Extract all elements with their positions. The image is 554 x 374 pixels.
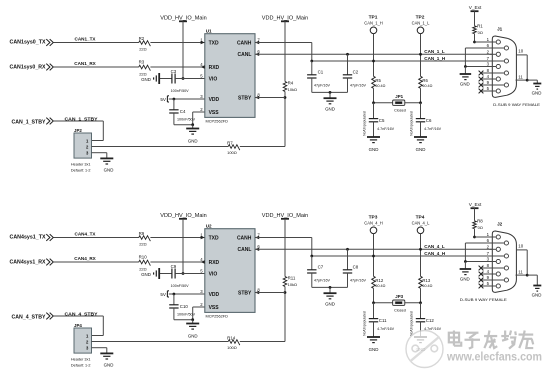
- svg-text:VIO: VIO: [209, 271, 218, 277]
- svg-text:No/Unpopulated: No/Unpopulated: [362, 111, 366, 136]
- svg-text:10kΩ: 10kΩ: [288, 282, 297, 287]
- svg-text:CAN1_RX: CAN1_RX: [74, 61, 96, 66]
- svg-text:RXD: RXD: [209, 65, 220, 71]
- svg-text:22Ω: 22Ω: [139, 46, 146, 51]
- svg-text:CAN_1_H: CAN_1_H: [364, 20, 382, 25]
- svg-text:CAN_1_STBY: CAN_1_STBY: [65, 116, 98, 121]
- svg-text:GND: GND: [104, 168, 114, 173]
- svg-text:CAN4sys1_TX: CAN4sys1_TX: [10, 235, 47, 241]
- svg-text:No/Unpopulated: No/Unpopulated: [362, 311, 366, 336]
- svg-text:STBY: STBY: [238, 95, 252, 101]
- svg-text:No/Unpopulated: No/Unpopulated: [409, 111, 413, 136]
- svg-text:R11: R11: [288, 276, 296, 281]
- svg-text:JP4: JP4: [74, 323, 82, 328]
- svg-text:0Ω: 0Ω: [478, 30, 483, 35]
- svg-text:CAN_4_STBY: CAN_4_STBY: [12, 314, 47, 320]
- svg-text:GND: GND: [369, 347, 379, 352]
- svg-text:V_Ext: V_Ext: [469, 5, 482, 10]
- svg-text:C8: C8: [353, 264, 359, 269]
- svg-text:GND: GND: [325, 106, 335, 111]
- svg-text:4.7nF/16V: 4.7nF/16V: [377, 327, 395, 331]
- svg-text:60.4Ω: 60.4Ω: [422, 284, 432, 288]
- svg-text:VSS: VSS: [209, 305, 220, 311]
- svg-text:GND: GND: [532, 91, 542, 96]
- svg-text:R13: R13: [422, 278, 430, 283]
- svg-text:No/Unpopulated: No/Unpopulated: [409, 311, 413, 336]
- svg-text:R8: R8: [477, 219, 483, 224]
- svg-text:MCP2562FD: MCP2562FD: [206, 118, 229, 123]
- svg-text:GND: GND: [460, 277, 470, 282]
- svg-text:R9: R9: [139, 231, 145, 236]
- svg-text:CAN_4_L: CAN_4_L: [424, 244, 445, 249]
- svg-text:Closed: Closed: [394, 109, 406, 113]
- svg-text:Closed: Closed: [394, 309, 406, 313]
- svg-text:C1: C1: [318, 69, 324, 74]
- svg-text:22Ω: 22Ω: [139, 267, 146, 272]
- svg-text:JP3: JP3: [395, 294, 403, 299]
- svg-text:22Ω: 22Ω: [139, 241, 146, 246]
- svg-text:RXD: RXD: [209, 260, 220, 266]
- svg-text:GND: GND: [416, 147, 426, 152]
- svg-text:CANH: CANH: [237, 235, 252, 241]
- svg-text:R14: R14: [227, 336, 236, 341]
- svg-text:CANH: CANH: [237, 40, 252, 46]
- svg-text:100nF/50V: 100nF/50V: [171, 284, 190, 288]
- svg-text:C5: C5: [379, 118, 385, 123]
- svg-text:R7: R7: [227, 141, 233, 146]
- svg-text:JP1: JP1: [395, 94, 403, 99]
- svg-text:C6: C6: [426, 118, 432, 123]
- svg-text:R3: R3: [139, 59, 145, 64]
- svg-text:VSS: VSS: [209, 110, 220, 116]
- svg-text:47pF/16V: 47pF/16V: [350, 83, 367, 87]
- svg-text:C12: C12: [426, 318, 435, 323]
- svg-text:11: 11: [518, 270, 523, 275]
- svg-text:J1: J1: [497, 27, 503, 32]
- svg-text:GND: GND: [325, 301, 335, 306]
- svg-text:R12: R12: [375, 278, 383, 283]
- svg-text:Default: 1-2: Default: 1-2: [71, 169, 91, 173]
- svg-text:0Ω: 0Ω: [478, 225, 483, 230]
- svg-text:CANL: CANL: [238, 52, 252, 58]
- svg-text:GND: GND: [104, 363, 114, 368]
- svg-text:R2: R2: [139, 36, 145, 41]
- svg-text:47pF/16V: 47pF/16V: [314, 278, 331, 282]
- svg-text:GND: GND: [460, 82, 470, 87]
- svg-text:MCP2562FD: MCP2562FD: [206, 313, 229, 318]
- svg-text:C10: C10: [180, 304, 189, 309]
- svg-text:CAN_4_H: CAN_4_H: [364, 220, 382, 225]
- svg-text:60.4Ω: 60.4Ω: [375, 284, 385, 288]
- svg-text:GND: GND: [188, 333, 198, 338]
- svg-text:GND: GND: [141, 272, 151, 277]
- svg-text:GND: GND: [532, 293, 542, 298]
- svg-text:Default: 1-2: Default: 1-2: [71, 364, 91, 368]
- svg-text:100Ω: 100Ω: [227, 345, 237, 350]
- svg-text:JP2: JP2: [74, 128, 82, 133]
- svg-text:CAN4_RX: CAN4_RX: [74, 256, 96, 261]
- svg-text:C3: C3: [171, 69, 177, 74]
- svg-text:R6: R6: [422, 78, 428, 83]
- svg-text:Header 3x1: Header 3x1: [71, 163, 91, 167]
- svg-text:www.elecfans.com: www.elecfans.com: [446, 350, 542, 364]
- svg-text:CAN1sys0_RX: CAN1sys0_RX: [10, 64, 47, 70]
- svg-text:U1: U1: [206, 29, 212, 34]
- svg-text:100nF/50V: 100nF/50V: [171, 89, 190, 93]
- svg-text:CAN1_TX: CAN1_TX: [75, 36, 97, 41]
- svg-text:R5: R5: [375, 78, 381, 83]
- svg-text:C11: C11: [379, 318, 387, 323]
- svg-text:CAN_4_STBY: CAN_4_STBY: [65, 311, 98, 316]
- svg-text:J2: J2: [497, 222, 503, 227]
- svg-text:R1: R1: [477, 24, 483, 29]
- svg-text:CANL: CANL: [238, 247, 252, 253]
- svg-text:60.4Ω: 60.4Ω: [375, 84, 385, 88]
- svg-text:5V: 5V: [160, 292, 167, 297]
- svg-text:60.4Ω: 60.4Ω: [422, 84, 432, 88]
- svg-text:CAN_1_L: CAN_1_L: [424, 49, 445, 54]
- svg-text:STBY: STBY: [238, 290, 252, 296]
- svg-text:CAN1sys0_TX: CAN1sys0_TX: [10, 40, 47, 46]
- svg-text:C9: C9: [171, 264, 177, 269]
- svg-text:4.7nF/16V: 4.7nF/16V: [377, 127, 395, 131]
- svg-text:10kΩ: 10kΩ: [288, 87, 297, 92]
- svg-text:VDD: VDD: [209, 97, 220, 103]
- svg-text:CAN_4_L: CAN_4_L: [412, 220, 430, 225]
- svg-text:U2: U2: [206, 224, 212, 229]
- svg-text:CAN_1_H: CAN_1_H: [424, 56, 446, 61]
- svg-text:47pF/16V: 47pF/16V: [314, 83, 331, 87]
- svg-text:10: 10: [518, 244, 523, 249]
- svg-text:C4: C4: [180, 109, 186, 114]
- svg-text:GND: GND: [141, 77, 151, 82]
- svg-text:TXD: TXD: [209, 40, 219, 46]
- svg-text:GND: GND: [369, 147, 379, 152]
- svg-text:11: 11: [518, 75, 523, 80]
- svg-text:CAN4sys1_RX: CAN4sys1_RX: [10, 259, 47, 265]
- svg-text:GND: GND: [188, 138, 198, 143]
- svg-text:47pF/16V: 47pF/16V: [350, 278, 367, 282]
- svg-text:4.7nF/16V: 4.7nF/16V: [424, 127, 442, 131]
- svg-text:CAN_1_STBY: CAN_1_STBY: [12, 119, 47, 125]
- svg-text:CAN_1_L: CAN_1_L: [412, 20, 430, 25]
- svg-text:R4: R4: [288, 81, 294, 86]
- svg-text:TXD: TXD: [209, 235, 219, 241]
- svg-text:22Ω: 22Ω: [139, 72, 146, 77]
- svg-text:D-SUB 9 WAY FEMALE: D-SUB 9 WAY FEMALE: [460, 297, 507, 302]
- svg-text:VIO: VIO: [209, 76, 218, 82]
- svg-text:C7: C7: [318, 264, 324, 269]
- svg-text:D-SUB 9 WAY FEMALE: D-SUB 9 WAY FEMALE: [493, 102, 540, 107]
- svg-text:Header 3x1: Header 3x1: [71, 358, 91, 362]
- svg-text:C2: C2: [353, 69, 359, 74]
- svg-text:V_Ext: V_Ext: [469, 202, 482, 207]
- svg-text:10: 10: [518, 49, 523, 54]
- svg-text:R10: R10: [139, 254, 148, 259]
- svg-text:100Ω: 100Ω: [227, 150, 237, 155]
- svg-text:CAN_4_H: CAN_4_H: [424, 251, 446, 256]
- svg-text:5V: 5V: [160, 97, 167, 102]
- svg-text:VDD: VDD: [209, 292, 220, 298]
- svg-text:CAN4_TX: CAN4_TX: [75, 231, 97, 236]
